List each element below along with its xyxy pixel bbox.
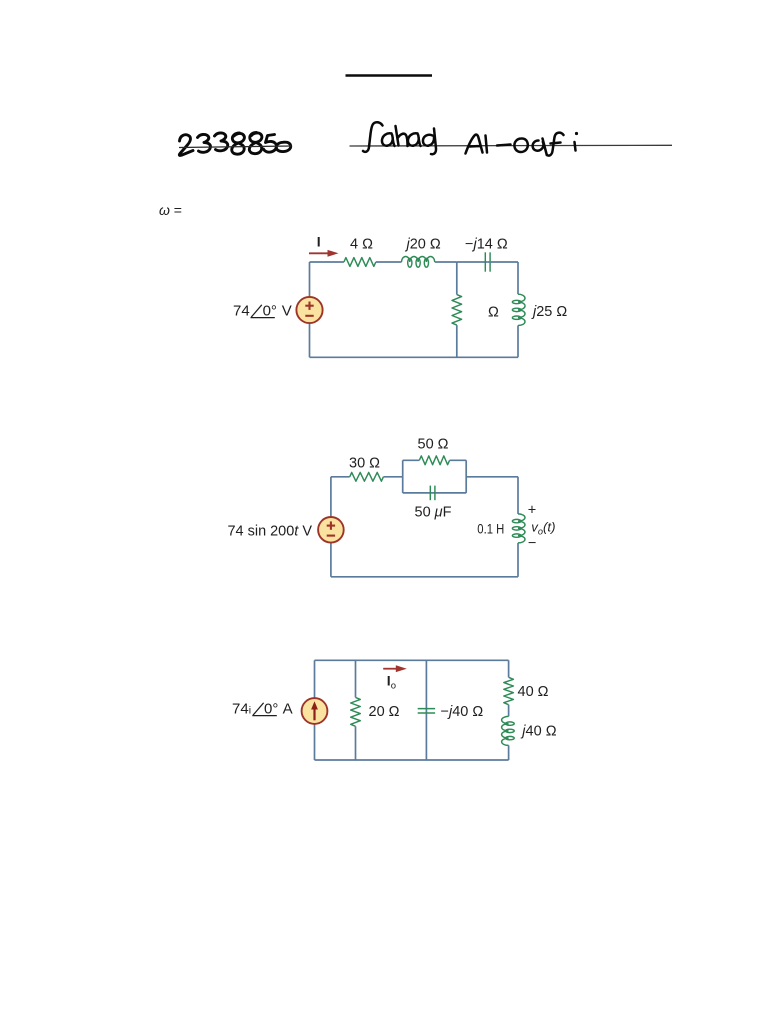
svg-text:vo(t): vo(t) xyxy=(531,519,555,536)
wire C1 top: cap to right corner xyxy=(488,261,518,263)
wire C3 branch1 lower xyxy=(355,726,357,760)
resistor 4Ω xyxy=(344,258,376,267)
svg-text:−j14 Ω: −j14 Ω xyxy=(465,237,508,253)
svg-text:−: − xyxy=(528,536,536,552)
top line xyxy=(346,74,433,77)
capacitor -j40Ω xyxy=(418,709,435,713)
label 74i∠0° A xyxy=(232,701,293,718)
label 4 Ω xyxy=(350,237,373,253)
label 30 Ω xyxy=(349,456,380,472)
svg-text:74: 74 xyxy=(233,303,250,320)
i dot xyxy=(575,132,578,135)
wire C2: box to right corner xyxy=(466,476,518,478)
wire C2 right rail upper xyxy=(517,477,519,514)
label Ω (middle resistor) xyxy=(488,305,499,321)
inductor j40Ω xyxy=(502,716,515,745)
wire C2 box top edge left xyxy=(403,459,420,461)
wire C1 left rail lower xyxy=(309,322,311,357)
inductor j20Ω xyxy=(402,257,435,268)
resistor 50Ω xyxy=(419,456,449,465)
wire C2 box left edge xyxy=(402,460,404,493)
label 74 sin 200t V xyxy=(228,524,313,540)
label -j40 Ω xyxy=(441,704,484,720)
signature line xyxy=(350,144,673,147)
svg-text:V: V xyxy=(282,303,292,320)
resistor 20Ω xyxy=(351,697,361,726)
wire C3 branch2 xyxy=(425,660,427,760)
current source I1 xyxy=(302,698,328,724)
handwritten name fahad Al-Oufi xyxy=(363,122,576,155)
wire C1 right rail lower xyxy=(517,326,519,358)
svg-text:74i: 74i xyxy=(232,701,251,718)
label 20 Ω xyxy=(369,704,400,720)
svg-text:0°: 0° xyxy=(264,701,278,718)
label − (vo) xyxy=(528,536,536,552)
wire C2 box top edge right xyxy=(450,459,467,461)
resistor 40Ω xyxy=(504,677,514,704)
label 50 Ω xyxy=(418,437,449,453)
svg-text:I: I xyxy=(317,234,321,250)
label -j14 Ω xyxy=(465,237,508,253)
capacitor -j14Ω xyxy=(485,252,490,271)
label 40 Ω xyxy=(518,684,549,700)
wire C3 top xyxy=(315,659,509,661)
label Io xyxy=(387,673,396,692)
svg-text:0.1 H: 0.1 H xyxy=(477,522,504,537)
label j25 Ω xyxy=(531,304,567,320)
label 0.1 H xyxy=(477,522,504,537)
label 50 µF xyxy=(415,505,452,521)
label vo(t) xyxy=(531,519,555,536)
svg-text:j25 Ω: j25 Ω xyxy=(531,304,567,320)
wire C1 top: R 4Ω to L j20Ω xyxy=(376,261,402,263)
label j20 Ω xyxy=(405,237,441,253)
handwritten student ID 2338850 xyxy=(179,133,290,156)
label 74∠0° V xyxy=(233,303,292,320)
label + (vo) xyxy=(528,502,536,518)
resistor R middle (Ω) xyxy=(452,295,462,326)
svg-text:A: A xyxy=(283,701,293,718)
wire C2: R 30Ω to box xyxy=(383,476,402,478)
svg-text:4 Ω: 4 Ω xyxy=(350,237,373,253)
wire C1 bottom xyxy=(310,356,519,358)
resistor 30Ω xyxy=(350,472,384,481)
wire C2 box right edge xyxy=(465,460,467,493)
svg-text:Ω: Ω xyxy=(488,305,499,321)
wire C1 middle branch lower xyxy=(456,325,458,357)
svg-text:j20 Ω: j20 Ω xyxy=(405,237,441,253)
wire C1 left rail upper xyxy=(309,262,311,298)
wire C3 left rail xyxy=(314,660,316,760)
wire C3 right rail top xyxy=(508,660,510,677)
svg-text:50 Ω: 50 Ω xyxy=(418,437,449,453)
ID strikethrough line xyxy=(179,146,292,148)
inductor 0.1 H xyxy=(512,514,525,543)
wire C3 bottom xyxy=(315,759,509,761)
wire C2 box bottom edge xyxy=(403,492,467,494)
wire C1 middle branch upper xyxy=(456,262,458,295)
svg-text:50 μF: 50 μF xyxy=(415,505,452,521)
svg-text:74 sin 200t V: 74 sin 200t V xyxy=(228,524,313,540)
svg-text:20 Ω: 20 Ω xyxy=(369,704,400,720)
wire C1 top: corner to R 4Ω xyxy=(310,261,344,263)
wire C3 right rail bottom xyxy=(508,745,510,760)
svg-text:+: + xyxy=(528,502,536,518)
svg-text:ω =: ω = xyxy=(159,202,182,218)
wire C3 right rail middle xyxy=(508,705,510,717)
wire C2 left rail lower xyxy=(330,542,332,577)
wire C1 right rail upper xyxy=(517,262,519,294)
wire C1 top: L j20Ω to node A xyxy=(435,261,457,263)
label j40 Ω xyxy=(520,724,556,740)
wire C2 left rail upper xyxy=(330,477,332,518)
svg-text:0°: 0° xyxy=(263,303,277,320)
capacitor 50µF xyxy=(430,486,435,501)
wire C3 branch1 upper xyxy=(355,660,357,697)
wire C2 bottom xyxy=(331,576,518,578)
svg-text:j40 Ω: j40 Ω xyxy=(520,724,556,740)
current arrow I xyxy=(309,250,339,257)
svg-text:−j40 Ω: −j40 Ω xyxy=(441,704,484,720)
wire C2 right rail lower xyxy=(517,543,519,577)
voltage source V1 xyxy=(296,297,322,323)
voltage source V2 xyxy=(318,517,344,543)
svg-text:Io: Io xyxy=(387,673,396,692)
inductor j25Ω xyxy=(512,294,525,325)
label I xyxy=(317,234,321,250)
svg-text:30 Ω: 30 Ω xyxy=(349,456,380,472)
current arrow Io xyxy=(383,665,407,672)
wire C1 top: node A to cap xyxy=(457,261,488,263)
label ω = xyxy=(159,202,182,218)
wire C2 top: corner to R 30Ω xyxy=(331,476,350,478)
svg-text:40 Ω: 40 Ω xyxy=(518,684,549,700)
